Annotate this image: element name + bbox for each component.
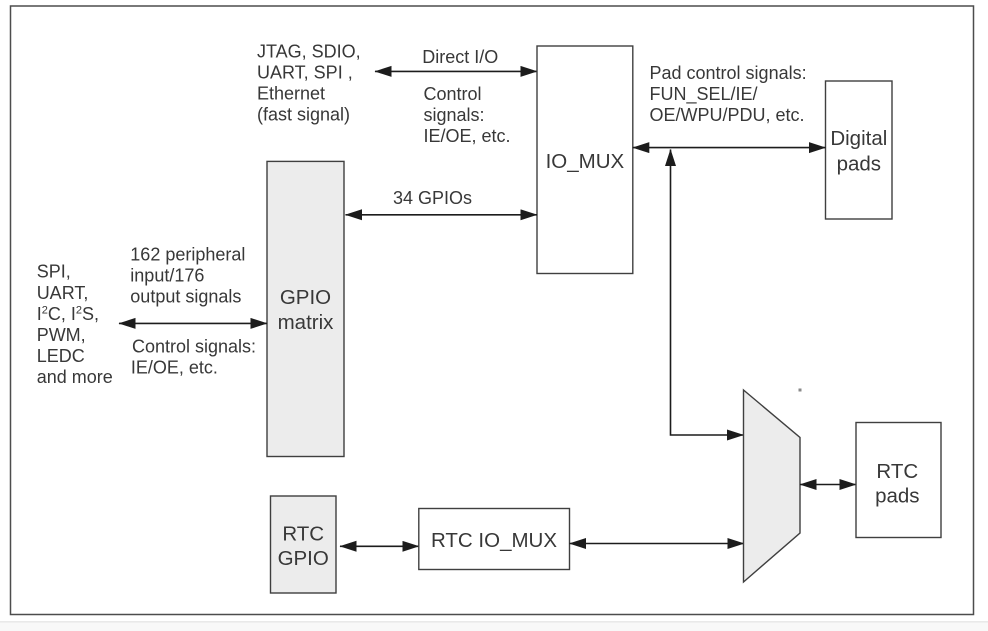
svg-text:GPIO: GPIO	[280, 286, 331, 309]
bottom page strip	[0, 622, 988, 631]
svg-text:Ethernet: Ethernet	[257, 84, 325, 104]
svg-text:IO_MUX: IO_MUX	[546, 150, 625, 173]
svg-text:OE/WPU/PDU, etc.: OE/WPU/PDU, etc.	[650, 105, 805, 125]
svg-text:34 GPIOs: 34 GPIOs	[393, 188, 472, 208]
wire: RTC GPIO to RTC IO_MUX double arrow	[340, 545, 419, 547]
svg-text:input/176: input/176	[130, 266, 204, 286]
stray dot artifact	[799, 389, 802, 392]
block IO_MUX	[537, 46, 633, 274]
wire: RTC IO_MUX to RTC mux double arrow	[570, 543, 745, 545]
label: Control signals IE/OE (left)	[131, 336, 256, 377]
block RTC GPIO	[271, 496, 337, 593]
label: Control signals IE/OE (top)	[424, 84, 511, 146]
svg-text:Digital: Digital	[830, 127, 887, 150]
component: RTC mux trapezoid	[744, 390, 801, 582]
svg-text:pads: pads	[875, 485, 919, 508]
svg-text:LEDC: LEDC	[37, 346, 85, 366]
svg-text:output signals: output signals	[130, 287, 241, 307]
label: 162 peripheral input/176 output signals	[130, 244, 245, 306]
svg-text:and more: and more	[37, 367, 113, 387]
block RTC IO_MUX	[419, 509, 570, 570]
svg-text:Direct I/O: Direct I/O	[422, 47, 498, 67]
block RTC pads	[856, 423, 941, 538]
wire: 34 GPIOs double arrow	[346, 214, 538, 216]
svg-text:FUN_SEL/IE/: FUN_SEL/IE/	[650, 84, 758, 105]
svg-text:162 peripheral: 162 peripheral	[130, 244, 245, 264]
svg-text:pads: pads	[837, 152, 881, 175]
block Digital pads	[826, 81, 893, 219]
wire: peripheral signals double arrow	[119, 322, 267, 324]
svg-text:(fast signal): (fast signal)	[257, 105, 350, 125]
wire: pad-control vertical connector to RTC mux	[671, 150, 744, 436]
svg-text:SPI,: SPI,	[37, 262, 71, 282]
svg-text:UART, SPI ,: UART, SPI ,	[257, 63, 353, 83]
svg-text:JTAG, SDIO,: JTAG, SDIO,	[257, 41, 361, 61]
label: SPI, UART, I2C, I2S, PWM, LEDC and more	[37, 262, 113, 388]
wire: Direct I/O double arrow	[375, 70, 537, 72]
svg-text:Pad control signals:: Pad control signals:	[650, 63, 807, 83]
svg-text:matrix: matrix	[278, 311, 335, 334]
block GPIO matrix	[267, 161, 344, 456]
svg-text:RTC: RTC	[282, 522, 324, 545]
svg-text:Control signals:: Control signals:	[132, 336, 256, 356]
label: Pad control signals FUN_SEL/IE/OE/WPU/PDU	[650, 63, 807, 125]
wire: IO_MUX to Digital pads double arrow	[633, 147, 826, 149]
wire: RTC mux to RTC pads double arrow	[800, 484, 856, 486]
svg-text:UART,: UART,	[37, 283, 89, 303]
svg-text:GPIO: GPIO	[278, 547, 329, 570]
svg-text:signals:: signals:	[424, 105, 485, 125]
svg-text:PWM,: PWM,	[37, 325, 86, 345]
svg-text:IE/OE, etc.: IE/OE, etc.	[131, 357, 218, 377]
svg-text:RTC: RTC	[876, 460, 918, 483]
svg-text:IE/OE, etc.: IE/OE, etc.	[424, 126, 511, 146]
svg-text:Control: Control	[424, 84, 482, 104]
svg-text:RTC IO_MUX: RTC IO_MUX	[431, 529, 557, 552]
label: JTAG, SDIO, UART, SPI, Ethernet (fast signal)	[257, 41, 361, 124]
